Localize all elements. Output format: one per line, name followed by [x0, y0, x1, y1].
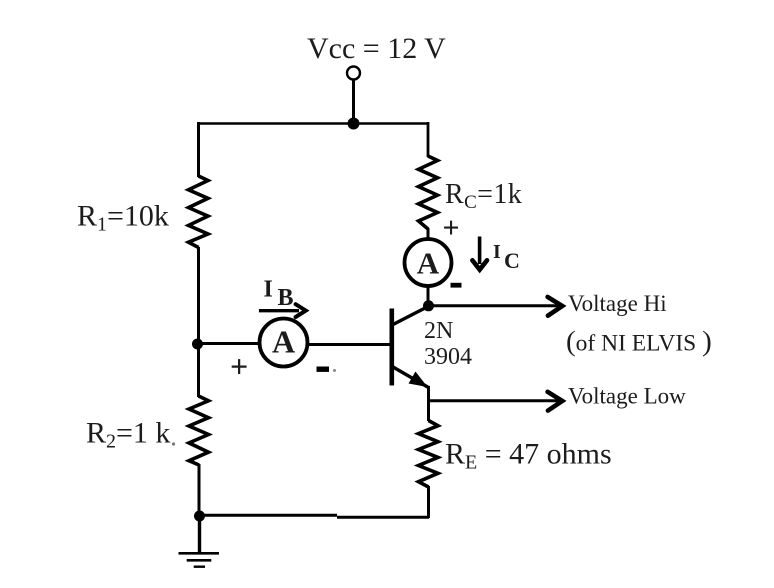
svg-text:C: C	[504, 248, 520, 273]
svg-text:(of NI ELVIS ): (of NI ELVIS )	[566, 326, 712, 358]
ammeter A1 (base)	[260, 319, 308, 367]
svg-text:RC=1k: RC=1k	[445, 179, 522, 213]
svg-text:I: I	[264, 277, 273, 303]
label IC with down arrow	[472, 237, 519, 274]
wire bottom rail left segment	[199, 514, 337, 517]
wire emitter to RE	[427, 400, 430, 421]
wire base node to ammeter	[198, 342, 259, 345]
svg-text:Voltage Low: Voltage Low	[568, 384, 686, 409]
svg-text:+: +	[443, 212, 460, 245]
wire Voltage Hi arrow	[429, 304, 559, 307]
label - (collector meter polarity)	[451, 283, 462, 288]
svg-text:3904: 3904	[424, 344, 472, 370]
wire left branch upper	[197, 122, 200, 177]
svg-text:I: I	[493, 241, 501, 263]
node top junction	[348, 118, 360, 130]
wire left branch lower	[198, 464, 201, 516]
label IB with arrow	[259, 277, 306, 318]
svg-text:R1=10k: R1=10k	[77, 200, 169, 236]
wire Vcc terminal to top rail	[352, 80, 355, 124]
wire emitter down	[427, 386, 430, 401]
wire RC to ammeter	[427, 228, 430, 240]
resistor RE	[419, 421, 439, 488]
svg-text:B: B	[278, 285, 294, 311]
svg-text:+: +	[230, 348, 248, 384]
wire top rail	[197, 122, 429, 125]
ammeter A2 (collector)	[405, 239, 452, 286]
svg-text:A: A	[272, 324, 295, 360]
wire Voltage Low arrow	[429, 399, 559, 402]
resistor R2	[189, 396, 209, 465]
svg-text:Voltage Hi: Voltage Hi	[568, 291, 667, 316]
ground	[179, 516, 220, 567]
transistor Q1 2N3904	[392, 307, 429, 388]
resistor RC	[419, 156, 438, 229]
node bottom junction	[194, 511, 205, 522]
svg-text:Vcc = 12 V: Vcc = 12 V	[307, 32, 446, 65]
Vcc terminal	[347, 67, 360, 80]
wire RE to bottom rail	[427, 486, 430, 518]
wire right branch upper	[427, 122, 430, 157]
node collector junction	[423, 300, 434, 311]
svg-text:A: A	[417, 246, 440, 281]
wire ammeter to collector node	[427, 285, 430, 306]
node base junction	[192, 339, 203, 350]
resistor R1	[189, 176, 209, 248]
wire ammeter to base	[309, 343, 391, 346]
wire left branch middle	[197, 247, 200, 397]
label - (base meter polarity)	[317, 367, 330, 372]
svg-text:R2=1 k: R2=1 k	[86, 417, 170, 453]
wire bottom rail right segment	[337, 516, 429, 519]
speck after base minus	[333, 369, 336, 372]
svg-text:2N: 2N	[424, 318, 453, 344]
speck after R2 label	[172, 442, 175, 445]
